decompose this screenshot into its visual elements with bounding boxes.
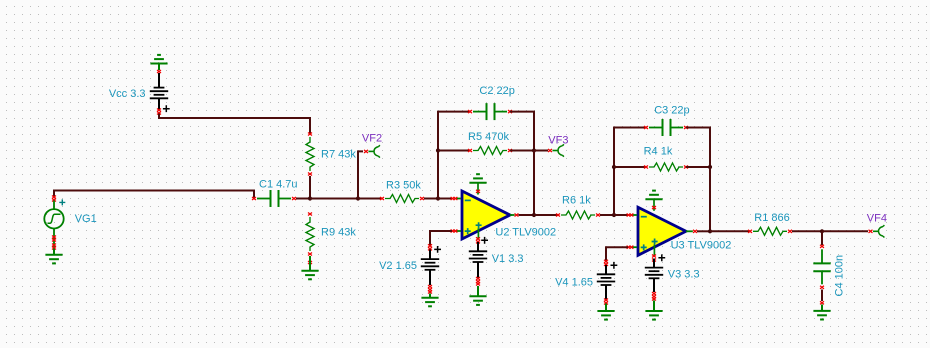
plus sign (U2 V+): [476, 222, 482, 239]
wire node H2 to R1: [710, 230, 750, 232]
ground (under V2): [421, 294, 438, 307]
wire node C up to C2/R5: [438, 112, 470, 199]
plus sign (U3 V+): [652, 239, 658, 256]
plus sign (V3 +): [658, 254, 665, 261]
wire R1 to node J: [792, 230, 822, 232]
resistor R9: [306, 212, 314, 255]
svg-text:VF3: VF3: [548, 135, 568, 147]
svg-text:VF2: VF2: [362, 133, 382, 145]
pin (V1 -): [476, 277, 480, 286]
battery V1: [469, 242, 487, 278]
label U2 TLV9002: [495, 226, 556, 238]
wire Vcc to R7 top: [159, 114, 310, 135]
pin (U3 inverting input): [627, 213, 637, 216]
label V2 1.65: [379, 260, 417, 272]
wire node C to U2 minus: [438, 198, 452, 200]
label C1 4.7u: [259, 179, 298, 191]
op-amp U3: [638, 207, 686, 255]
battery V2: [421, 250, 439, 286]
label Vcc 3.3: [109, 88, 146, 100]
pin (V2 +): [428, 244, 432, 250]
wire node E to U2 output: [533, 151, 535, 216]
node C (junction): [436, 196, 440, 200]
resistor R1: [748, 227, 792, 235]
wire R4 to node H: [686, 166, 710, 168]
voltage pin VF4: [869, 225, 885, 237]
resistor R3: [380, 195, 424, 203]
wire R6 to node F: [600, 214, 614, 216]
wire R7 to node A: [309, 176, 311, 199]
label V3 3.3: [668, 268, 700, 280]
svg-text:R3 50k: R3 50k: [386, 180, 421, 192]
wire C3 to node H: [686, 128, 710, 168]
wire node H to U3 output: [709, 167, 711, 231]
pin (U2 bottom supply): [476, 237, 480, 243]
wire node D to R5: [438, 150, 470, 152]
pin (U2 output): [510, 213, 519, 216]
svg-text:C1 4.7u: C1 4.7u: [259, 179, 298, 191]
pin (V4 +): [604, 260, 608, 266]
wire R5 to node E: [510, 150, 534, 152]
plus sign (V4 +): [611, 262, 618, 269]
battery V4: [597, 265, 615, 299]
node J (junction): [820, 229, 824, 233]
wire node A to node B: [310, 198, 358, 200]
label VF4: [867, 213, 887, 225]
pin (V4 -): [604, 298, 608, 304]
wire node F to U3 minus: [614, 214, 628, 216]
label R6 1k: [562, 194, 591, 206]
plus sign (V1 +): [481, 237, 488, 244]
resistor R7: [306, 132, 314, 175]
pin (VG1 +): [52, 195, 56, 201]
label C4 100n: [834, 255, 846, 297]
wire U2 plus to V2: [430, 231, 452, 245]
svg-text:V3 3.3: V3 3.3: [668, 268, 700, 280]
svg-text:R5 470k: R5 470k: [468, 131, 509, 143]
pin (Vcc negative terminal): [157, 70, 161, 73]
label R1 866: [754, 212, 789, 224]
node A (junction): [308, 196, 312, 200]
wire node F up to C3/R4: [614, 128, 646, 216]
node H (junction R4 right): [708, 165, 712, 169]
pin (U3 non-inverting input): [627, 246, 637, 249]
plus sign (U3 +): [641, 244, 647, 250]
wire C4 to ground: [821, 290, 823, 302]
battery Vcc: [150, 73, 168, 110]
pin (Vcc positive terminal): [157, 108, 161, 114]
pin (V2 -): [428, 285, 432, 294]
label VF3: [548, 135, 568, 147]
label R4 1k: [644, 146, 673, 158]
svg-text:U2 TLV9002: U2 TLV9002: [495, 226, 556, 238]
pin (U2 top supply): [476, 183, 480, 195]
pin (ground under R9): [308, 261, 312, 264]
wire R3 to node C: [424, 198, 438, 200]
svg-text:Vcc 3.3: Vcc 3.3: [109, 88, 146, 100]
voltage generator VG1: [44, 201, 63, 237]
plus sign (V2 +): [434, 246, 441, 253]
wire C1 to node A: [296, 198, 310, 200]
svg-text:C2 22p: C2 22p: [479, 85, 514, 97]
svg-text:C4 100n: C4 100n: [834, 255, 846, 297]
node G (junction R4 left): [612, 165, 616, 169]
wire node E2 to R6: [534, 214, 558, 216]
plus sign (Vcc +): [163, 105, 170, 112]
ground (under VG1): [45, 249, 62, 264]
minus sign (U2 -): [465, 199, 471, 201]
minus sign (U3 -): [641, 216, 647, 218]
capacitor C3: [644, 119, 688, 136]
capacitor C1: [252, 190, 296, 207]
voltage pin VF2: [364, 145, 380, 157]
label VF2: [362, 133, 382, 145]
ground (under V4): [597, 304, 614, 320]
pin (U3 output): [686, 230, 697, 233]
node D (junction R5 left): [436, 148, 440, 152]
ground (above Vcc battery): [150, 55, 167, 70]
label R3 50k: [386, 180, 421, 192]
pin (U3 top supply): [652, 199, 656, 211]
ground (under C4): [813, 305, 830, 320]
pin (VG1 -): [52, 235, 56, 249]
capacitor C4: [813, 245, 830, 289]
node F (junction): [612, 213, 616, 217]
node E (junction R5 right): [532, 148, 536, 152]
plus sign (U2 +): [465, 228, 471, 234]
label V1 3.3: [492, 253, 524, 265]
label C2 22p: [479, 85, 514, 97]
resistor R5: [468, 147, 512, 155]
plus sign (VG1 +): [59, 199, 65, 205]
svg-text:V1 3.3: V1 3.3: [492, 253, 524, 265]
label VG1: [75, 213, 97, 225]
svg-text:R9 43k: R9 43k: [321, 227, 356, 239]
pin (U2 inverting input): [451, 197, 461, 200]
node H2 (junction output U3): [708, 229, 712, 233]
wire U3 plus to V4: [606, 247, 628, 260]
label C3 22p: [654, 104, 689, 116]
wire U3 output to node H2: [697, 230, 710, 232]
svg-text:V4 1.65: V4 1.65: [555, 277, 593, 289]
node E2 (junction output U2): [532, 213, 536, 217]
node B (junction): [356, 196, 360, 200]
svg-text:VF4: VF4: [867, 213, 887, 225]
label R5 470k: [468, 131, 509, 143]
battery V3: [645, 259, 663, 293]
op-amp U2: [462, 191, 510, 239]
label U3 TLV9002: [671, 240, 732, 252]
ground (under V1): [469, 286, 486, 305]
svg-text:R1 866: R1 866: [754, 212, 789, 224]
pin (ground under VG1): [52, 243, 56, 249]
pin (U3 bottom supply): [652, 254, 656, 261]
wire node B to R3: [358, 198, 382, 200]
svg-text:C3 22p: C3 22p: [654, 104, 689, 116]
label R7 43k: [321, 149, 356, 161]
wire node G to R4: [614, 166, 646, 168]
voltage pin VF3: [548, 144, 564, 156]
wire node J to C4: [821, 231, 823, 245]
svg-text:VG1: VG1: [75, 213, 97, 225]
wire node B to VF2: [358, 151, 363, 198]
svg-text:R4 1k: R4 1k: [644, 146, 673, 158]
resistor R6: [556, 211, 600, 219]
svg-text:V2 1.65: V2 1.65: [379, 260, 417, 272]
label V4 1.65: [555, 277, 593, 289]
wire C2 to node E: [510, 112, 534, 151]
svg-text:R7 43k: R7 43k: [321, 149, 356, 161]
wire node E to VF3: [534, 150, 548, 152]
capacitor C2: [468, 103, 512, 120]
wire U2 output to node E2: [519, 214, 535, 216]
pin (U2 non-inverting input): [451, 229, 461, 232]
ground (under V3): [645, 301, 662, 320]
pin (V3 -): [652, 292, 656, 301]
svg-text:U3 TLV9002: U3 TLV9002: [671, 240, 732, 252]
ground (above U3): [645, 191, 662, 200]
ground (above U2): [469, 174, 486, 183]
wire node J to VF4: [822, 230, 868, 232]
resistor R4: [644, 163, 688, 171]
pin (ground under C4): [820, 301, 824, 304]
svg-text:R6 1k: R6 1k: [562, 194, 591, 206]
ground (under R9): [301, 256, 318, 279]
wire VG1 to C1: [54, 191, 254, 198]
label R9 43k: [321, 227, 356, 239]
